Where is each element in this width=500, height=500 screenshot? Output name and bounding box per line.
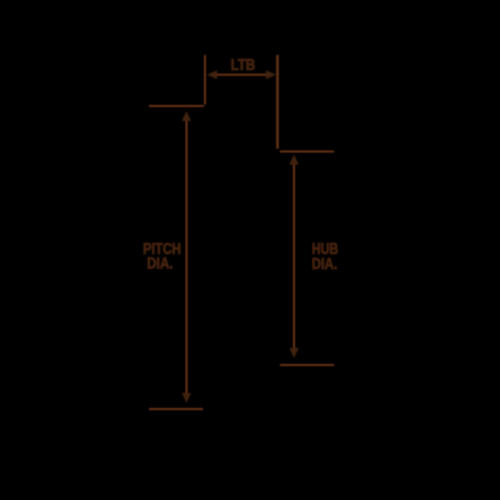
svg-text:DIA.: DIA. (312, 256, 338, 273)
svg-text:DIA.: DIA. (147, 256, 173, 273)
svg-text:LTB: LTB (231, 57, 256, 74)
